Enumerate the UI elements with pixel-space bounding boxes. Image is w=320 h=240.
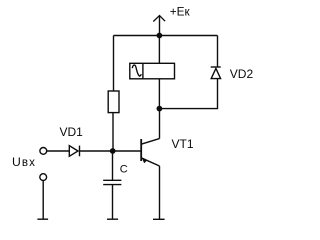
node: base node junction (110, 148, 116, 154)
svg-text:C: C (120, 164, 128, 176)
wire: base node to transistor base (113, 150, 141, 152)
wire: relay to collector node (158, 79, 160, 109)
wire: rail down to resistor (113, 36, 115, 92)
transistor VT1 (141, 139, 159, 166)
wire: collector node to VD2 branch (159, 79, 217, 109)
wire: lower terminal to ground (42, 181, 44, 220)
ground: input terminal (37, 218, 48, 220)
capacitor C (103, 180, 121, 184)
wire: emitter to ground (159, 166, 161, 219)
wire: rail junction down to relay (158, 36, 160, 64)
resistor R1 (108, 91, 119, 113)
diode VD1 (69, 146, 79, 157)
wire: base node to capacitor (112, 151, 114, 180)
svg-text:VD1: VD1 (60, 125, 84, 139)
wire: capacitor to ground (112, 185, 114, 220)
svg-text:+Ек: +Ек (170, 5, 191, 19)
wire: +Ek top rail (114, 35, 218, 37)
wire: VD2 to rail (217, 36, 219, 68)
power +Ek arrow (153, 16, 165, 36)
node: collector junction (157, 106, 163, 112)
ground: capacitor (107, 218, 118, 220)
svg-text:Uвх: Uвх (12, 155, 36, 169)
svg-text:VD2: VD2 (230, 67, 254, 81)
diode VD2 (211, 67, 221, 79)
node: top rail junction (157, 33, 163, 39)
wire: collector up to node (159, 109, 161, 139)
terminal: input lower (40, 174, 47, 181)
ground: emitter (153, 218, 165, 220)
relay coil K1 (130, 63, 175, 79)
wire: VD1 to base node (80, 150, 113, 152)
wire: terminal to VD1 (47, 150, 70, 152)
wire: resistor to base node (112, 113, 114, 151)
terminal: input upper (40, 148, 47, 155)
svg-text:VT1: VT1 (172, 137, 194, 151)
